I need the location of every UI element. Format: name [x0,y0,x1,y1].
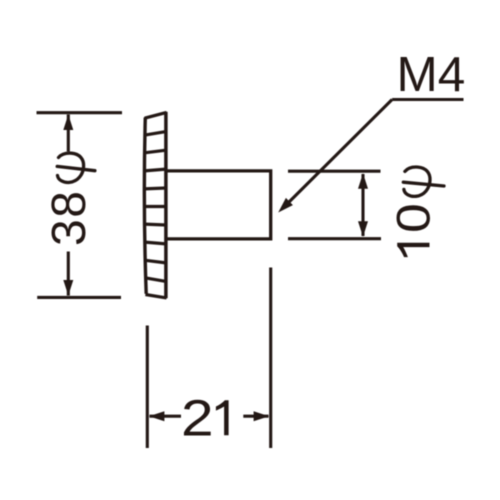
svg-text:M4: M4 [397,47,466,102]
svg-text:2: 2 [181,389,214,447]
svg-text:0: 0 [387,203,440,233]
svg-text:38: 38 [43,190,96,246]
